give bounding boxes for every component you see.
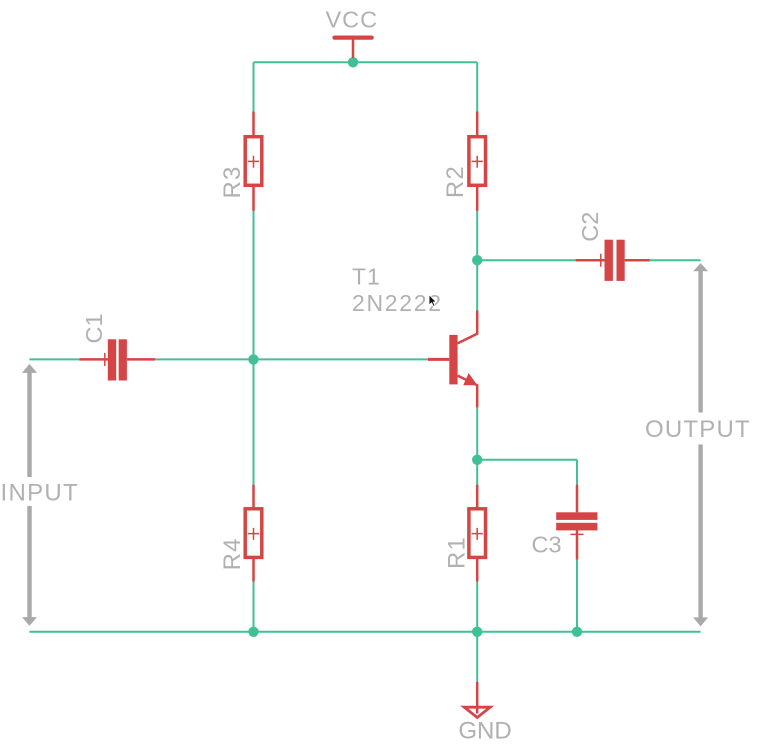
ground symbol GND <box>464 682 490 718</box>
svg-text:C1: C1 <box>81 313 107 343</box>
node junction R4 ground <box>248 627 258 637</box>
svg-text:VCC: VCC <box>325 6 378 32</box>
annotation arrow OUTPUT (double-headed) <box>693 263 708 626</box>
svg-text:R4: R4 <box>219 537 246 570</box>
mouse cursor pointer <box>429 295 436 307</box>
wire collector-to-C2 horizontal <box>477 259 575 261</box>
svg-text:C3: C3 <box>531 532 561 558</box>
capacitor C1 <box>79 339 155 380</box>
svg-text:T1: T1 <box>352 263 381 289</box>
svg-text:R3: R3 <box>219 165 246 198</box>
node junction GND rail <box>472 627 482 637</box>
resistor R4 <box>245 485 262 582</box>
node junction base <box>248 354 258 364</box>
wire input left segment <box>29 358 79 360</box>
node junction VCC rail <box>348 57 358 67</box>
wire collector vertical <box>476 211 478 311</box>
resistor R3 <box>245 112 262 211</box>
capacitor C2 <box>576 240 650 281</box>
wire ground rail bottom horizontal <box>29 631 700 633</box>
wire C3 top vertical <box>576 460 578 485</box>
wire R4 bottom vertical <box>253 581 255 632</box>
wire GND stub vertical <box>476 632 478 682</box>
transistor T1 (NPN 2N2222) <box>428 311 477 408</box>
wire R2 top vertical <box>476 62 478 112</box>
resistor R2 <box>469 112 486 211</box>
wire C3 bottom vertical <box>576 559 578 632</box>
node junction C3 ground <box>572 627 582 637</box>
wire emitter-to-C3 horizontal <box>477 459 577 461</box>
wire emitter vertical <box>476 407 478 485</box>
wire C2-to-output segment <box>650 259 701 261</box>
annotation arrow INPUT (double-headed) <box>22 364 37 626</box>
node junction emitter/C3 <box>472 455 482 465</box>
capacitor C3 <box>556 485 597 560</box>
svg-text:INPUT: INPUT <box>1 479 80 506</box>
svg-text:R2: R2 <box>442 165 469 198</box>
svg-text:C2: C2 <box>577 212 603 242</box>
resistor R1 <box>469 485 486 582</box>
power symbol VCC <box>335 38 372 58</box>
wire VCC rail top horizontal <box>254 61 478 63</box>
svg-text:R1: R1 <box>444 536 471 569</box>
svg-text:GND: GND <box>458 718 511 745</box>
node junction collector/C2 <box>472 255 482 265</box>
svg-text:OUTPUT: OUTPUT <box>645 416 751 443</box>
wire base net vertical R3-to-R4 <box>253 211 255 486</box>
wire R1 bottom vertical <box>476 581 478 632</box>
wire R3 top vertical <box>253 62 255 112</box>
wire C1-to-base segment <box>155 358 428 360</box>
